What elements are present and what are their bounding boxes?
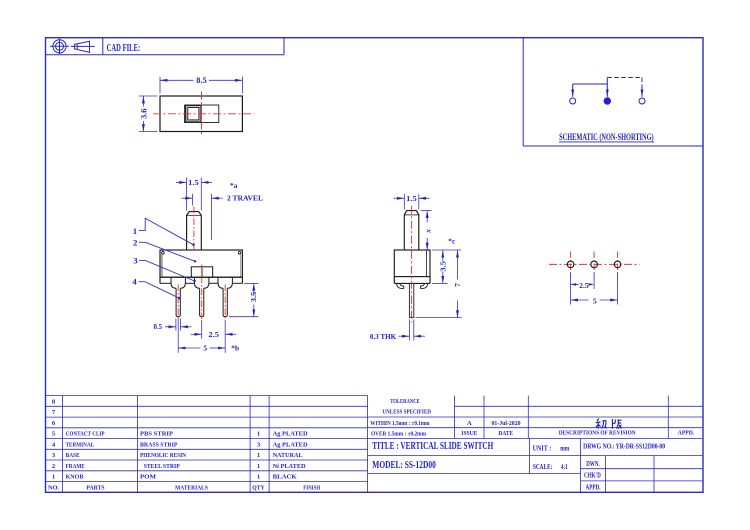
svg-text:2.5: 2.5 (579, 281, 589, 290)
svg-text:1: 1 (257, 431, 260, 438)
svg-text:TOLERANCE: TOLERANCE (390, 398, 420, 405)
svg-text:NO.: NO. (48, 484, 59, 491)
svg-text:*a: *a (230, 181, 238, 190)
svg-text:1.5: 1.5 (188, 178, 199, 187)
svg-text:A: A (467, 420, 472, 427)
svg-text:2: 2 (133, 237, 138, 247)
svg-text:01-Jul-2020: 01-Jul-2020 (492, 420, 522, 427)
svg-text:QTY: QTY (252, 484, 265, 491)
svg-text:Ag PLATED: Ag PLATED (273, 441, 308, 448)
svg-text:MODEL: SS-12D00: MODEL: SS-12D00 (372, 460, 436, 471)
svg-text:4:1: 4:1 (561, 463, 568, 471)
svg-text:4: 4 (52, 441, 56, 448)
svg-text:7: 7 (453, 283, 462, 287)
svg-text:3: 3 (257, 441, 261, 448)
svg-text:CAD FILE:: CAD FILE: (107, 43, 141, 54)
svg-text:UNIT :: UNIT : (533, 445, 552, 453)
svg-text:FRAME: FRAME (66, 463, 86, 470)
svg-text:SCALE:: SCALE: (533, 463, 553, 471)
svg-text:2 TRAVEL: 2 TRAVEL (227, 193, 263, 202)
svg-text:APPD.: APPD. (586, 485, 601, 492)
svg-text:APPD.: APPD. (678, 430, 695, 437)
svg-text:3.5: 3.5 (438, 261, 447, 272)
svg-text:TERMINAL: TERMINAL (66, 441, 95, 448)
svg-text:*b: *b (231, 344, 239, 353)
svg-text:FINISH: FINISH (303, 484, 321, 491)
svg-text:0.3 THK: 0.3 THK (370, 332, 396, 341)
svg-text:DWN.: DWN. (586, 461, 600, 468)
svg-text:ISSUE: ISSUE (461, 430, 477, 437)
svg-text:DATE: DATE (499, 430, 514, 437)
svg-text:3.5: 3.5 (249, 291, 258, 302)
svg-text:1: 1 (52, 474, 55, 481)
svg-text:WITHIN 1.5mm : ±0.1mm: WITHIN 1.5mm : ±0.1mm (370, 420, 430, 427)
svg-text:1: 1 (257, 474, 260, 481)
svg-text:PHENOLIC RESIN: PHENOLIC RESIN (140, 452, 186, 459)
svg-text:BLACK: BLACK (273, 474, 298, 481)
svg-text:3.6: 3.6 (139, 109, 148, 120)
svg-text:5: 5 (52, 431, 56, 438)
svg-text:CHK'D: CHK'D (584, 473, 601, 480)
svg-text:5: 5 (203, 344, 207, 353)
svg-text:8.5: 8.5 (196, 76, 207, 85)
svg-text:3: 3 (133, 256, 138, 266)
svg-text:NATURAL: NATURAL (273, 452, 303, 459)
svg-text:DRWG NO.: YR-DR-SS12D00-00: DRWG NO.: YR-DR-SS12D00-00 (583, 443, 666, 450)
svg-text:PARTS: PARTS (86, 484, 104, 491)
svg-text:3: 3 (52, 452, 56, 459)
svg-text:PBS STRIP: PBS STRIP (140, 431, 173, 438)
svg-text:7: 7 (52, 409, 56, 416)
svg-text:6: 6 (52, 420, 56, 427)
svg-text:OVER 1.5mm : ±0.2mm: OVER 1.5mm : ±0.2mm (371, 431, 426, 438)
svg-text:SCHEMATIC (NON-SHORTING): SCHEMATIC (NON-SHORTING) (559, 132, 654, 143)
svg-text:STEEL STRIP: STEEL STRIP (144, 463, 180, 470)
svg-text:KNOB: KNOB (66, 474, 84, 481)
svg-text:1: 1 (257, 463, 260, 470)
svg-text:4: 4 (132, 277, 137, 287)
svg-text:1.5: 1.5 (406, 194, 417, 203)
svg-text:CONTACT CLIP: CONTACT CLIP (66, 431, 105, 438)
svg-text:DESCRIPTIONS OF REVISION: DESCRIPTIONS OF REVISION (559, 429, 636, 436)
svg-text:Ni PLATED: Ni PLATED (273, 463, 306, 470)
svg-text:UNLESS SPECIFIED: UNLESS SPECIFIED (382, 408, 431, 415)
svg-text:2.5: 2.5 (208, 330, 219, 339)
svg-text:mm: mm (560, 445, 569, 453)
svg-text:5: 5 (593, 296, 597, 305)
svg-text:2: 2 (52, 463, 56, 470)
svg-text:x: x (423, 229, 432, 234)
svg-text:1: 1 (133, 226, 137, 236)
svg-text:POM: POM (140, 474, 157, 481)
svg-text:BASE: BASE (66, 452, 81, 459)
svg-text:8: 8 (52, 398, 56, 405)
svg-text:TITLE : VERTICAL SLIDE SWITCH: TITLE : VERTICAL SLIDE SWITCH (372, 441, 493, 452)
svg-text:Ag PLATED: Ag PLATED (273, 431, 308, 438)
svg-text:1: 1 (257, 452, 260, 459)
svg-text:*c: *c (448, 237, 456, 246)
svg-text:BRASS STRIP: BRASS STRIP (140, 441, 178, 448)
svg-text:MATERIALS: MATERIALS (175, 484, 208, 491)
svg-text:0.5: 0.5 (154, 322, 163, 331)
